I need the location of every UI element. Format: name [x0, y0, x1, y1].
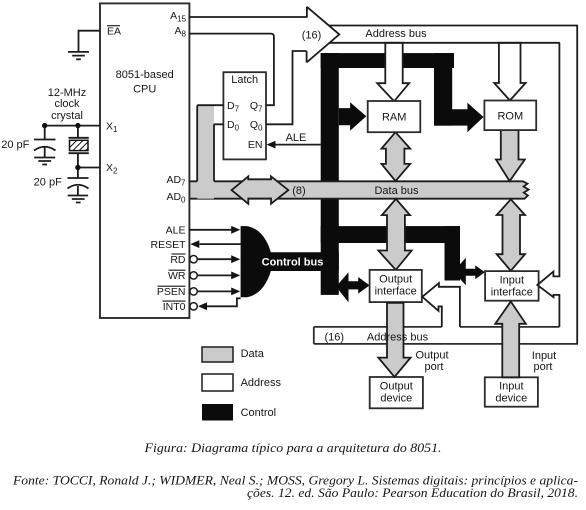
svg-text:(16): (16) [302, 29, 322, 41]
svg-text:Address bus: Address bus [365, 28, 427, 40]
svg-text:Output: Output [415, 350, 448, 362]
svg-text:(8): (8) [292, 185, 305, 197]
svg-text:8051-based: 8051-based [116, 69, 174, 81]
svg-text:Data bus: Data bus [374, 185, 419, 197]
svg-text:clock: clock [54, 98, 80, 110]
svg-text:20 pF: 20 pF [34, 177, 62, 189]
svg-text:Control bus: Control bus [262, 256, 324, 268]
svg-text:Output: Output [380, 381, 413, 393]
svg-text:Output: Output [379, 273, 412, 285]
svg-text:EN: EN [248, 139, 263, 151]
svg-text:Control: Control [241, 407, 276, 419]
svg-text:interface: interface [491, 286, 533, 298]
svg-text:Address: Address [241, 377, 282, 389]
svg-text:port: port [534, 361, 553, 373]
svg-text:CPU: CPU [133, 84, 156, 96]
svg-text:device: device [495, 393, 527, 405]
svg-text:ALE: ALE [166, 225, 186, 237]
svg-text:20 pF: 20 pF [1, 139, 29, 151]
svg-text:INT0: INT0 [163, 301, 186, 313]
svg-text:(16): (16) [325, 331, 345, 343]
svg-text:interface: interface [375, 285, 417, 297]
svg-text:crystal: crystal [51, 110, 83, 122]
svg-text:Figura: Diagrama típico para a: Figura: Diagrama típico para a arquitetu… [143, 440, 441, 455]
svg-text:Data: Data [241, 348, 265, 360]
svg-text:Input: Input [499, 381, 523, 393]
svg-text:ALE: ALE [286, 132, 307, 144]
svg-text:RD: RD [170, 254, 186, 266]
svg-text:Input: Input [500, 274, 524, 286]
svg-text:WR: WR [168, 270, 186, 282]
svg-text:ROM: ROM [497, 111, 523, 123]
svg-text:Latch: Latch [231, 74, 258, 86]
svg-text:RESET: RESET [150, 239, 186, 251]
svg-text:EA: EA [107, 26, 121, 38]
svg-text:port: port [425, 361, 444, 373]
svg-text:PSEN: PSEN [157, 286, 186, 298]
svg-text:Input: Input [532, 350, 556, 362]
svg-text:Address bus: Address bus [367, 332, 429, 344]
svg-text:device: device [380, 393, 412, 405]
svg-text:RAM: RAM [382, 112, 406, 124]
svg-text:ções. 12. ed. São Paulo: Pears: ções. 12. ed. São Paulo: Pearson Educati… [247, 485, 578, 500]
